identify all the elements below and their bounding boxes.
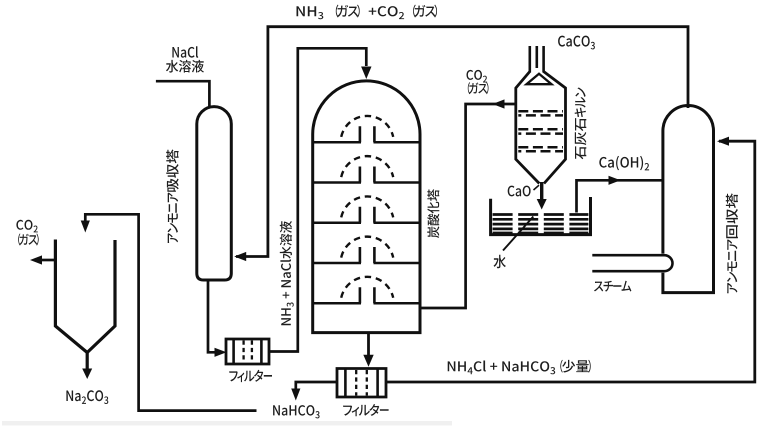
vessel ammonia absorption tower <box>197 107 232 280</box>
arrowhead into calciner vessel <box>81 221 90 233</box>
tray 2 of carbonation tower <box>313 181 420 184</box>
riser pair 4 <box>360 247 375 263</box>
arrowhead into filter 2 <box>363 355 373 367</box>
wire NaHCO3 recycle -> calciner (bottom-left) <box>85 214 256 410</box>
arrowhead CO2 toward carbonator <box>493 99 505 108</box>
label CO2 (gas) near kiln - line2 <box>468 82 489 94</box>
label フィルター (1) <box>229 370 272 382</box>
vessel carbonation tower <box>313 81 420 333</box>
label NaCl <box>172 46 198 58</box>
kiln feed cone (triangle) <box>527 74 552 84</box>
label 石灰石キルン (vertical) <box>575 88 587 160</box>
label CO2 (gas) near kiln - line1 <box>467 70 488 83</box>
vessel ammonia recovery tower <box>663 106 714 293</box>
wire ammoniated brine: absorption tower bottom -> filter 1 <box>208 279 215 352</box>
label Na2CO3 <box>66 390 108 404</box>
label スチーム <box>594 281 631 292</box>
label フィルター (2) <box>343 404 388 416</box>
label 炭酸化塔 (vertical) <box>427 189 439 238</box>
tray 4 of carbonation tower <box>313 262 420 265</box>
tick pointer from CaO label <box>534 185 540 190</box>
label 水溶液 <box>166 60 204 73</box>
riser pair 5 <box>360 287 375 303</box>
pipe NaCl feed into absorption tower <box>156 81 210 107</box>
bubble cap 4 (dashed dome) <box>341 237 393 258</box>
label アンモニア回収塔 (vertical) <box>726 193 738 293</box>
wire CO2 gas: kiln -> carbonation tower bottom <box>421 104 516 308</box>
wire NaHCO3 out of filter 2 <box>296 382 337 390</box>
arrowhead gas into absorption tower <box>234 252 246 261</box>
water bath / slaker vessel <box>491 197 591 235</box>
label NaHCO3 <box>273 405 320 418</box>
arrow CaO from kiln into slaker <box>540 182 543 200</box>
arrowhead into recovery tower <box>717 137 729 146</box>
bubble cap 2 (dashed dome) <box>341 156 393 177</box>
bubble cap 1 (dashed dome) <box>341 116 393 137</box>
filter F1 <box>226 339 269 364</box>
label NH4Cl + NaHCO3（少量） <box>448 360 591 375</box>
arrowhead brine into carbonation tower <box>361 67 371 80</box>
wire NH3+CO2 gas recycle: recovery tower top -> absorption tower <box>236 27 688 257</box>
label CO2 (gas) left - line1 <box>16 220 37 233</box>
vessel Na2CO3 calciner/separator <box>55 240 115 353</box>
arrowhead NaHCO3 down <box>291 389 300 401</box>
water (dashed liquid) <box>493 213 589 216</box>
pointer line from 水 label into bath <box>503 217 533 251</box>
label NH3 + NaCl水溶液 (vertical) <box>280 221 294 325</box>
arrowhead Ca(OH)2 <box>609 176 621 185</box>
label Ca(OH)2 <box>599 156 649 171</box>
riser pair 1 <box>360 126 375 142</box>
label 水 <box>494 255 506 269</box>
tray 3 of carbonation tower <box>313 222 420 225</box>
pipe Ca(OH)2: slaker -> recovery tower <box>577 180 663 212</box>
label アンモニア吸収塔 (vertical) <box>166 149 179 243</box>
bubble cap 3 (dashed dome) <box>341 196 393 217</box>
label CaCO3 <box>558 36 595 50</box>
label CO2 (gas) left - line2 <box>18 234 39 246</box>
kiln charge (dashed layers) <box>518 110 563 113</box>
label CaO <box>508 186 531 197</box>
faint scan smudge (decorative) <box>2 421 452 426</box>
bubble cap 5 (dashed dome) <box>341 277 393 298</box>
wire carbonator bottom -> filter 2 <box>367 333 370 355</box>
wire mother liquor: filter 2 -> recovery tower <box>386 141 755 382</box>
arrow CO2 gas out of calciner <box>42 259 55 262</box>
riser pair 2 <box>360 167 375 183</box>
kiln chimney (3 lines) <box>530 46 544 73</box>
tray 1 of carbonation tower <box>313 141 420 144</box>
filter F2 <box>337 369 386 398</box>
label NH3（ガス）+CO2（ガス） top <box>297 5 438 20</box>
steam sparger pipe <box>592 255 672 271</box>
arrowhead into filter 1 <box>215 348 227 357</box>
limestone kiln body outline <box>516 72 566 184</box>
riser pair 3 <box>360 207 375 223</box>
arrow Na2CO3 product out <box>86 351 89 369</box>
wire filter 1 -> carbonation tower top <box>269 48 366 351</box>
tray 5 of carbonation tower <box>313 302 420 305</box>
